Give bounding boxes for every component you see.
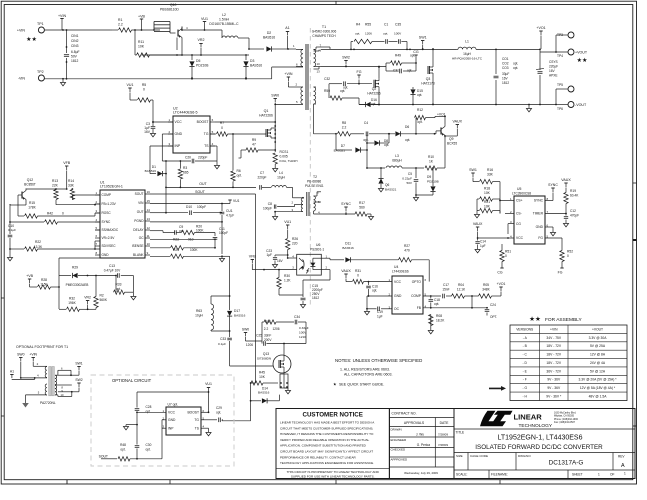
- svg-text:+VIN: +VIN: [17, 29, 25, 33]
- svg-text:CONTRACT NO.: CONTRACT NO.: [392, 412, 417, 416]
- svg-text:11: 11: [147, 234, 150, 238]
- svg-text:BOOST: BOOST: [187, 411, 199, 415]
- svg-text:OUT: OUT: [199, 182, 207, 186]
- wire R63 top join: [211, 295, 231, 332]
- svg-text:INP: INP: [175, 144, 181, 148]
- resistor R9 47: [239, 138, 277, 158]
- svg-text:SOUT: SOUT: [135, 192, 144, 196]
- svg-text:R12: R12: [417, 108, 423, 112]
- wire L2 input: [205, 30, 223, 38]
- svg-text:DO1607B-155ML-C: DO1607B-155ML-C: [209, 22, 239, 26]
- title text: [456, 431, 604, 452]
- diode D16 opt: [359, 98, 380, 107]
- resistor R49 opt: [386, 54, 417, 68]
- svg-text:1206: 1206: [272, 327, 279, 331]
- svg-text:SHEET: SHEET: [572, 473, 583, 477]
- svg-text:T2: T2: [313, 175, 317, 179]
- capacitor C3 1uF 16V: [144, 121, 155, 137]
- svg-text:Wednesday, July 29, 2009: Wednesday, July 29, 2009: [404, 471, 438, 475]
- capacitor C23 1uF 16V: [266, 249, 288, 268]
- svg-text:PS2801-1: PS2801-1: [310, 248, 324, 252]
- svg-text:SUPPLIED FOR USE WITH LINEAR T: SUPPLIED FOR USE WITH LINEAR TECHNOLOGY …: [291, 474, 375, 478]
- resistor R22 13.3K: [9, 240, 100, 251]
- svg-text:10K: 10K: [259, 375, 266, 379]
- address text: [554, 412, 579, 425]
- svg-text:9V - 36V: 9V - 36V: [547, 386, 561, 390]
- svg-text:ENGINEER: ENGINEER: [391, 438, 408, 442]
- inductor L2 1.5mH: [209, 13, 249, 38]
- svg-text:16V: 16V: [502, 77, 509, 81]
- svg-text:Q6: Q6: [385, 183, 389, 187]
- svg-text:PE-68086: PE-68086: [307, 180, 321, 184]
- capacitor C9 opt: [150, 225, 184, 235]
- svg-text:R55: R55: [365, 23, 371, 27]
- svg-text:SW2: SW2: [75, 378, 82, 382]
- notes text: [333, 358, 422, 387]
- svg-text:opt.: opt.: [513, 66, 518, 70]
- svg-text:220: 220: [292, 242, 298, 246]
- svg-text:0.33µF: 0.33µF: [299, 326, 309, 330]
- wire L4 into T2 top tap: [293, 197, 304, 199]
- svg-text:U7 opt.: U7 opt.: [168, 403, 179, 407]
- svg-text:0: 0: [221, 126, 223, 130]
- svg-text:50V: 50V: [406, 181, 412, 185]
- wire VIN pin15: [150, 203, 230, 205]
- svg-text:3.3V @ 30A: 3.3V @ 30A: [589, 336, 608, 340]
- assembly table: [510, 325, 627, 401]
- svg-text:SYNC: SYNC: [534, 199, 544, 203]
- svg-text:SW0: SW0: [17, 353, 24, 357]
- supply tick +VIN top: [58, 14, 66, 30]
- resistor R5b 348K: [472, 283, 501, 298]
- svg-text:R3: R3: [183, 166, 187, 170]
- svg-text:APXE: APXE: [549, 74, 558, 78]
- svg-text:C8: C8: [268, 202, 272, 206]
- svg-text:36V - 72V: 36V - 72V: [546, 369, 561, 373]
- resistor R21 10K: [477, 199, 500, 213]
- svg-text:1812: 1812: [312, 296, 319, 300]
- svg-text:J. Wu: J. Wu: [416, 433, 424, 437]
- svg-text:HR-PQA2050-16-LTC: HR-PQA2050-16-LTC: [452, 57, 483, 61]
- svg-text:100pF: 100pF: [197, 205, 206, 209]
- svg-text:SIZE: SIZE: [456, 454, 463, 458]
- net label VFB top-left: [63, 161, 71, 190]
- svg-text:BC856T: BC856T: [24, 183, 36, 187]
- resistor R2 560K: [88, 276, 108, 310]
- svg-text:VAUX: VAUX: [473, 222, 483, 226]
- svg-text:0.005: 0.005: [280, 155, 288, 159]
- svg-text:TP5: TP5: [557, 83, 563, 87]
- svg-text:D7: D7: [341, 144, 345, 148]
- svg-text:ROSC: ROSC: [102, 211, 112, 215]
- resistor R30 1.2K: [277, 269, 303, 295]
- svg-text:FILENAME:: FILENAME:: [491, 473, 508, 477]
- svg-text:SI7308DN: SI7308DN: [257, 357, 271, 361]
- ground left of U1: [7, 249, 12, 261]
- capacitor C34 0.33uF 100V 1210: [294, 315, 309, 341]
- svg-text:10: 10: [147, 242, 151, 246]
- net tick SW0 opt: [17, 353, 24, 378]
- svg-text:13: 13: [317, 70, 321, 74]
- svg-text:0: 0: [505, 254, 507, 258]
- svg-text:Fax: (408)434-0507: Fax: (408)434-0507: [554, 421, 576, 424]
- svg-text:opt.: opt.: [417, 120, 422, 124]
- capacitor C8 100pF: [263, 202, 277, 211]
- svg-text:PMEG3002AEB: PMEG3002AEB: [66, 283, 89, 287]
- net label VFB mid: [249, 255, 265, 271]
- snubber R4 R55 C1 C35: [350, 23, 408, 51]
- svg-text:VU1: VU1: [201, 17, 208, 21]
- svg-text:GND: GND: [394, 294, 402, 298]
- transistor Q1 HAT2266 main switch: [259, 104, 276, 152]
- resistor R16 33K: [473, 168, 501, 201]
- svg-text:C12: C12: [570, 209, 576, 213]
- svg-text:BAS516: BAS516: [263, 36, 275, 40]
- svg-text:+VIN: +VIN: [29, 353, 37, 357]
- svg-text:- H: - H: [523, 395, 528, 399]
- capacitor C25 33nF 200V 1206: [246, 334, 306, 348]
- svg-text:18.2K: 18.2K: [436, 319, 445, 323]
- svg-text:SCALE:: SCALE:: [456, 473, 467, 477]
- inductor R63 10uH: [195, 296, 229, 331]
- wire Q10 base rail: [142, 54, 250, 56]
- net tick A1 opt: [10, 370, 47, 380]
- svg-text:opt.: opt.: [340, 89, 345, 93]
- svg-text:6.8µF: 6.8µF: [71, 50, 80, 54]
- ground optional circuit left: [123, 425, 137, 430]
- optional circuit dashed box: [91, 375, 234, 466]
- capacitor C19 1uF: [364, 307, 392, 319]
- svg-text:VR=2.5V: VR=2.5V: [102, 236, 116, 240]
- supply tick VAUX at Q9: [445, 120, 463, 137]
- capacitor CU1 4.7uF: [220, 204, 235, 255]
- net tick SW2 opt: [72, 378, 83, 392]
- svg-text:C34: C34: [294, 315, 300, 319]
- svg-text:VAUX: VAUX: [341, 269, 351, 273]
- resistor R50 opt: [324, 84, 359, 105]
- svg-text:CHECKED: CHECKED: [391, 448, 407, 452]
- svg-text:L4: L4: [279, 171, 283, 175]
- resistor R27 470: [398, 244, 429, 282]
- wire L2 to D2: [248, 38, 264, 50]
- svg-text:R1: R1: [118, 18, 122, 22]
- capacitor C7 220pF: [257, 171, 271, 190]
- svg-text:SW0: SW0: [271, 94, 279, 98]
- svg-text:10: 10: [317, 62, 321, 66]
- wire U2 GND down: [162, 134, 173, 161]
- diode D7 BAS521: [334, 133, 368, 153]
- wire GND pin6 U5: [545, 227, 556, 236]
- svg-text:TS: TS: [204, 144, 209, 148]
- svg-text:1210: 1210: [299, 335, 306, 339]
- svg-text:R05: R05: [483, 283, 489, 287]
- svg-text:DWG/NO: DWG/NO: [518, 454, 531, 458]
- svg-text:R9: R9: [252, 138, 256, 142]
- diode D6 opt: [395, 125, 435, 142]
- svg-text:560K: 560K: [100, 298, 108, 302]
- supply tick VU1 optional: [205, 382, 212, 412]
- svg-text:560: 560: [359, 206, 365, 210]
- svg-text:48V @ 1.5A: 48V @ 1.5A: [589, 395, 608, 399]
- svg-text:CHAMPS TECH: CHAMPS TECH: [312, 34, 336, 38]
- wire OUT pin14: [150, 187, 167, 213]
- svg-text:R14: R14: [68, 179, 74, 183]
- svg-text:VFB: VFB: [63, 161, 71, 165]
- svg-text:33K: 33K: [68, 184, 75, 188]
- label optional circuit: [112, 378, 152, 383]
- wire SOUT vertical: [222, 194, 256, 421]
- svg-text:Q1: Q1: [264, 109, 269, 113]
- capacitor CO1 CO2 CO3 33uF: [494, 49, 519, 105]
- svg-text:18V - 72V: 18V - 72V: [546, 344, 561, 348]
- ground at output: [526, 105, 531, 112]
- svg-text:R45: R45: [259, 371, 265, 375]
- svg-text:BCX55: BCX55: [447, 142, 457, 146]
- svg-text:-VIN: -VIN: [18, 77, 26, 81]
- svg-text:REV: REV: [618, 455, 625, 459]
- resistor R19 60.4K: [564, 189, 579, 214]
- capacitor C2b 220pF: [162, 146, 217, 174]
- svg-text:C29: C29: [216, 406, 222, 410]
- wire CS+ pin1: [500, 200, 514, 202]
- svg-text:L3: L3: [395, 154, 399, 158]
- svg-text:PA2720NL: PA2720NL: [40, 401, 56, 405]
- svg-text:220pF: 220pF: [198, 156, 207, 160]
- diode D14 BAS516: [250, 387, 280, 404]
- resistor R08 18.2K: [428, 314, 445, 334]
- optocoupler U6 PS2801-1: [264, 243, 330, 280]
- svg-text:13: 13: [147, 217, 151, 221]
- svg-text:+VB: +VB: [26, 274, 33, 278]
- diode Q6 BAS521: [378, 167, 396, 192]
- svg-text:R4: R4: [356, 23, 360, 27]
- svg-text:16V: 16V: [277, 259, 284, 263]
- ground below TS: [214, 161, 219, 169]
- svg-text:VU1: VU1: [233, 199, 240, 203]
- capacitor C24 OPT: [472, 296, 497, 319]
- svg-text:10µH: 10µH: [277, 176, 285, 180]
- wire U7 INP: [162, 427, 166, 429]
- test point TP1: [17, 22, 44, 33]
- svg-text:U6: U6: [316, 243, 320, 247]
- svg-text:+VOUT: +VOUT: [592, 327, 603, 331]
- svg-text:opt.: opt.: [372, 289, 377, 293]
- wire SS pin5: [10, 229, 100, 231]
- resistor R33 opt: [114, 276, 134, 295]
- svg-text:1812: 1812: [502, 81, 509, 85]
- svg-text:opt.: opt.: [146, 448, 151, 452]
- svg-text:CO3: CO3: [502, 66, 509, 70]
- capacitor C13 0.47uF 10V: [104, 264, 134, 278]
- transistor Q13 SI7308DN: [257, 343, 291, 382]
- svg-text:THIS CIRCUIT IS PROPRIETARY TO: THIS CIRCUIT IS PROPRIETARY TO LINEAR TE…: [287, 470, 380, 474]
- resistor R7 0: [210, 121, 266, 136]
- svg-text:U4: U4: [394, 265, 398, 269]
- svg-text:D10: D10: [186, 205, 192, 209]
- svg-text:0.47µF 10V: 0.47µF 10V: [104, 269, 121, 273]
- ground at C13: [131, 292, 136, 300]
- svg-text:CIN2: CIN2: [71, 39, 79, 43]
- svg-text:TP1: TP1: [37, 22, 44, 26]
- wire U7 TS ground: [201, 428, 211, 436]
- error amp U4 LT4430ES6: [389, 265, 427, 314]
- svg-text:R31: R31: [355, 269, 361, 273]
- supply tick VAUX at U5: [473, 222, 483, 239]
- svg-text:15nF: 15nF: [442, 288, 449, 292]
- contract and approvals block: [389, 409, 454, 479]
- resistor R54 2.2 1206: [262, 320, 294, 341]
- svg-text:D11: D11: [345, 242, 351, 246]
- svg-text:TP4: TP4: [557, 54, 563, 58]
- capacitor C10 0.1uF: [8, 204, 16, 241]
- resistor R8 2.2: [338, 121, 365, 136]
- wire +VO1 to Q9 collector: [435, 116, 446, 118]
- capacitor C18 opt: [423, 295, 440, 309]
- wire T1 pin10 rail: [321, 66, 386, 68]
- svg-text:opt.: opt.: [407, 69, 412, 73]
- svg-text:R51: R51: [505, 250, 511, 254]
- resistor R32 196K: [59, 297, 89, 312]
- assembly table title: [529, 315, 582, 323]
- svg-text:D9: D9: [427, 175, 431, 179]
- svg-text:GND: GND: [536, 225, 544, 229]
- supply tick +VIN mid: [284, 72, 303, 87]
- svg-text:BAS516: BAS516: [258, 391, 270, 395]
- svg-text:100pF: 100pF: [263, 207, 272, 211]
- svg-text:BAS516: BAS516: [250, 64, 262, 68]
- gate driver U7 LTC4440 optional: [163, 403, 205, 436]
- test point TP3: [556, 32, 574, 52]
- svg-text:VU1: VU1: [284, 220, 291, 224]
- svg-text:33nF: 33nF: [264, 334, 271, 338]
- svg-text:VU1: VU1: [127, 83, 134, 87]
- svg-text:SOUT: SOUT: [99, 455, 108, 459]
- svg-text:opt.: opt.: [513, 62, 518, 66]
- svg-text:TG: TG: [204, 132, 209, 136]
- wire TIMER pin7: [545, 213, 566, 215]
- svg-text:RCS1: RCS1: [280, 150, 289, 154]
- svg-text:R52: R52: [567, 250, 573, 254]
- svg-text:GND: GND: [175, 132, 183, 136]
- svg-text:C17: C17: [443, 283, 449, 287]
- wire SW0 node: [271, 94, 303, 106]
- net tick SW0 mid: [242, 328, 262, 342]
- svg-text:BAS521: BAS521: [385, 188, 397, 192]
- transformer T2 PE-68386 PULSE ENG: [292, 175, 325, 216]
- svg-text:FB=1.23V: FB=1.23V: [102, 202, 117, 206]
- svg-text:0.1µF: 0.1µF: [218, 342, 226, 346]
- svg-text:ISOLATED FORWARD DC/DC CONVERT: ISOLATED FORWARD DC/DC CONVERTER: [475, 444, 603, 451]
- assembly stars at VOUT: [577, 57, 588, 64]
- svg-text:★★: ★★: [577, 57, 588, 64]
- transistor Q3 HAT2173: [416, 48, 435, 105]
- svg-text:R48: R48: [120, 443, 126, 447]
- svg-text:G45R2-0306.006: G45R2-0306.006: [312, 30, 337, 34]
- svg-text:CAGE CODE: CAGE CODE: [470, 454, 488, 458]
- svg-text:910: 910: [188, 238, 194, 242]
- svg-text:Q13: Q13: [263, 352, 269, 356]
- wire U7 GND left: [162, 420, 166, 459]
- svg-text:16V: 16V: [549, 69, 556, 73]
- net tick SW1 opt: [71, 362, 83, 376]
- svg-text:APPROVALS: APPROVALS: [404, 421, 425, 425]
- ground at input: [60, 78, 65, 86]
- svg-text:R26: R26: [292, 237, 298, 241]
- svg-text:A: A: [621, 463, 625, 469]
- svg-text:0.1µF: 0.1µF: [8, 228, 16, 232]
- svg-text:PGND: PGND: [134, 219, 144, 223]
- svg-text:680µH: 680µH: [392, 159, 402, 163]
- test point TP2: [18, 70, 45, 81]
- diode D17 BAS516: [227, 296, 246, 334]
- svg-text:SW0: SW0: [242, 328, 249, 332]
- svg-text:1.2K: 1.2K: [284, 279, 291, 283]
- svg-text:OPTO: OPTO: [412, 280, 422, 284]
- sync driver U5 LTC3900CS8: [510, 187, 549, 244]
- svg-text:R63: R63: [196, 309, 202, 313]
- svg-text:SYNC: SYNC: [341, 202, 351, 206]
- capacitor C11 100pF: [150, 227, 228, 248]
- label optional footprint for T1: [16, 345, 68, 349]
- svg-text:R30: R30: [284, 274, 290, 278]
- svg-text:C32: C32: [324, 77, 330, 81]
- resistor R1 2.2: [112, 18, 160, 32]
- svg-text:HAT2266: HAT2266: [259, 114, 273, 118]
- capacitor D10 100pF: [166, 205, 222, 215]
- svg-text:R2: R2: [100, 294, 104, 298]
- svg-text:R19: R19: [570, 189, 576, 193]
- net tick VU1 at VIN: [228, 199, 239, 204]
- svg-text:+VB: +VB: [138, 15, 145, 19]
- wire C33 to Q13 source: [230, 365, 273, 367]
- net label SYNC at T2: [341, 202, 351, 215]
- supply tick VAUX right: [561, 178, 571, 192]
- svg-text:U5: U5: [517, 187, 521, 191]
- svg-text:ALL CAPACITORS ARE 0603.: ALL CAPACITORS ARE 0603.: [344, 373, 392, 377]
- svg-text:FG: FG: [357, 70, 362, 74]
- svg-text:BAS516: BAS516: [342, 246, 354, 250]
- net tick FG: [357, 70, 362, 84]
- inductor L1 16uH HR-PQA2050-16-LTC: [452, 40, 541, 61]
- svg-text:D17: D17: [234, 309, 240, 313]
- svg-text:DELAY: DELAY: [133, 228, 144, 232]
- supply tick +VO1 top: [536, 26, 545, 49]
- svg-text:-VOUT: -VOUT: [575, 103, 587, 107]
- wire sync rectifier bottom rail: [359, 103, 433, 105]
- svg-text:DC1317A-G: DC1317A-G: [549, 460, 584, 467]
- resistor R11 10K: [134, 29, 182, 57]
- svg-text:opt.: opt.: [120, 448, 125, 452]
- svg-text:opt.: opt.: [146, 410, 151, 414]
- wire U4 GND pin2 to ground: [366, 296, 392, 310]
- svg-text:1206: 1206: [246, 343, 253, 347]
- svg-text:BAS521: BAS521: [334, 149, 346, 153]
- svg-text:SW1: SW1: [469, 168, 477, 172]
- svg-text:GND: GND: [168, 418, 176, 422]
- wire Q10 base node: [176, 38, 178, 56]
- svg-text:CIN1: CIN1: [71, 34, 79, 38]
- svg-text:R42: R42: [47, 212, 53, 216]
- wire T2 tap 2: [277, 204, 303, 206]
- resistor R12 opt: [414, 108, 446, 134]
- zener VR2 at Q10 base: [198, 38, 205, 56]
- diode D8 opt: [366, 133, 390, 147]
- wire U5 CG pin3: [508, 224, 514, 234]
- svg-text:R27: R27: [404, 244, 410, 248]
- supply tick +VB top: [138, 15, 145, 31]
- svg-text:0.22µF: 0.22µF: [402, 177, 412, 181]
- svg-text:FG: FG: [538, 236, 543, 240]
